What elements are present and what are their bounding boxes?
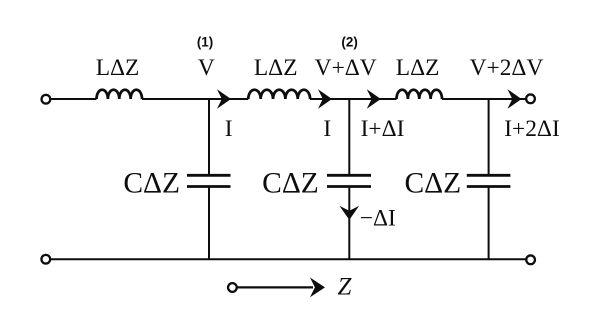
svg-text:V+2ΔV: V+2ΔV [470, 55, 544, 81]
svg-text:V: V [198, 55, 215, 81]
svg-text:Z: Z [338, 274, 353, 301]
inductor L3 (LΔZ) coil [397, 90, 443, 99]
svg-text:I: I [323, 116, 331, 142]
svg-text:I+ΔI: I+ΔI [361, 116, 405, 142]
wire branch 3 upper [488, 98, 490, 175]
capacitor C2 (CΔZ) plates [327, 174, 371, 177]
svg-text:V+ΔV: V+ΔV [315, 55, 377, 81]
current arrow I (after node 1) [217, 89, 231, 109]
Z axis arrow [310, 278, 325, 298]
svg-text:I: I [225, 116, 233, 142]
terminal bottom-right [526, 255, 535, 264]
current arrow I (before node 2) [318, 89, 332, 109]
svg-text:CΔZ: CΔZ [262, 167, 319, 199]
svg-text:LΔZ: LΔZ [254, 55, 298, 81]
wire branch 3 lower [488, 187, 490, 260]
terminal bottom-left [41, 255, 50, 264]
svg-text:−ΔI: −ΔI [360, 206, 396, 232]
svg-text:LΔZ: LΔZ [396, 55, 440, 81]
wire branch 1 upper [208, 98, 210, 175]
svg-text:(2): (2) [341, 35, 357, 50]
wire branch 1 lower [208, 187, 210, 260]
current arrow I+ΔI (after node 2) [367, 89, 381, 109]
svg-text:I+2ΔI: I+2ΔI [504, 116, 560, 142]
wire branch 2 lower [348, 187, 350, 260]
Z axis wire [237, 286, 313, 288]
capacitor C3 (CΔZ) plates [467, 174, 511, 177]
wire top rail segment 4 [442, 98, 526, 100]
wire top rail segment 2 [142, 98, 248, 100]
svg-text:(1): (1) [197, 35, 213, 50]
terminal top-left [42, 95, 51, 104]
svg-text:CΔZ: CΔZ [123, 167, 180, 199]
wire top rail segment 3 [310, 98, 396, 100]
inductor L2 (LΔZ) coil [248, 90, 310, 99]
svg-text:LΔZ: LΔZ [96, 55, 140, 81]
current arrow I+2ΔI (into right port) [508, 89, 522, 109]
current arrow -ΔI (down) [340, 206, 360, 220]
inductor L1 (LΔZ) coil [97, 90, 143, 99]
wire top rail segment 1 [51, 98, 97, 100]
capacitor C1 (CΔZ) plates [187, 174, 231, 177]
wire branch 2 upper [348, 98, 350, 175]
Z axis reference circle [228, 283, 237, 292]
terminal top-right [526, 94, 535, 103]
wire bottom rail [50, 258, 526, 260]
svg-text:CΔZ: CΔZ [404, 167, 461, 199]
